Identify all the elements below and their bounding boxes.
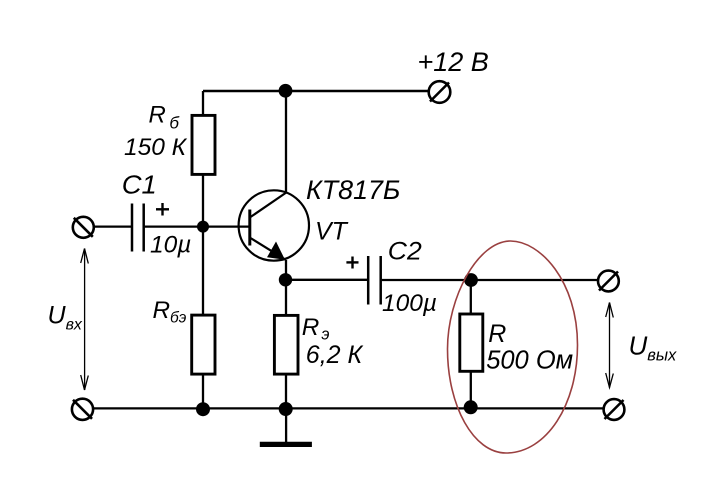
- svg-text:Rбэ: Rбэ: [153, 297, 187, 327]
- node bottom Rbe: [196, 402, 210, 416]
- red ellipse highlight: [448, 241, 578, 453]
- wire emitter down: [285, 260, 287, 315]
- capacitor C1: [132, 204, 144, 252]
- svg-text:150 К: 150 К: [124, 134, 188, 161]
- node base: [197, 221, 209, 233]
- svg-text:КТ817Б: КТ817Б: [306, 175, 400, 205]
- wire load bottom: [470, 372, 472, 409]
- terminal +12V: [429, 81, 451, 103]
- wire C2 to output: [382, 279, 598, 281]
- transistor emitter arrow: [267, 242, 285, 260]
- svg-text:Uвх: Uвх: [48, 302, 83, 334]
- transistor base bar: [248, 210, 251, 246]
- svg-text:500 Ом: 500 Ом: [486, 347, 573, 375]
- wire collector: [285, 91, 287, 193]
- resistor R 500 Ohm: [460, 314, 483, 371]
- wire input to C1: [93, 225, 132, 227]
- wire Rb top: [202, 91, 204, 115]
- transistor emitter diagonal: [251, 238, 287, 260]
- terminal output bottom: [604, 399, 625, 420]
- wire C1 to base: [145, 225, 249, 227]
- node bottom load: [464, 400, 478, 414]
- svg-text:VT: VT: [315, 218, 349, 246]
- resistor R_be: [192, 315, 215, 374]
- arrow U_in: [81, 249, 89, 391]
- capacitor C2: [368, 256, 381, 305]
- node collector rail: [279, 84, 293, 98]
- plus sign C2: [346, 257, 358, 269]
- svg-text:100µ: 100µ: [382, 290, 437, 317]
- wire Re bottom: [285, 374, 287, 408]
- terminal input top: [73, 217, 94, 238]
- node bottom Re: [279, 402, 293, 416]
- terminal input bottom: [72, 399, 93, 420]
- ground: [260, 408, 312, 444]
- node load top: [464, 273, 478, 287]
- svg-text:+12 В: +12 В: [418, 47, 489, 77]
- svg-text:Rэ: Rэ: [302, 314, 330, 344]
- svg-text:R: R: [488, 320, 506, 348]
- wire Rbe bottom: [202, 374, 204, 408]
- svg-text:6,2 К: 6,2 К: [306, 341, 364, 369]
- wire top rail: [203, 90, 429, 92]
- svg-text:C2: C2: [388, 238, 422, 266]
- wire Rb bottom to Rbe top: [202, 175, 204, 316]
- transistor collector diagonal: [251, 193, 287, 218]
- node emitter: [279, 273, 292, 286]
- wire load top: [470, 280, 472, 314]
- svg-text:10µ: 10µ: [150, 232, 191, 259]
- plus sign C1: [156, 203, 169, 216]
- resistor R_b 150K: [192, 115, 215, 174]
- wire bottom rail: [93, 407, 604, 409]
- svg-text:C1: C1: [122, 172, 157, 200]
- terminal output top: [598, 271, 619, 292]
- transistor VT KT817B circle: [239, 190, 309, 260]
- svg-text:Uвых: Uвых: [629, 331, 678, 365]
- wire emitter to C2: [286, 279, 368, 281]
- resistor R_e 6.2K: [274, 315, 298, 374]
- svg-text:Rб: Rб: [149, 102, 181, 133]
- arrow U_out: [606, 303, 614, 388]
